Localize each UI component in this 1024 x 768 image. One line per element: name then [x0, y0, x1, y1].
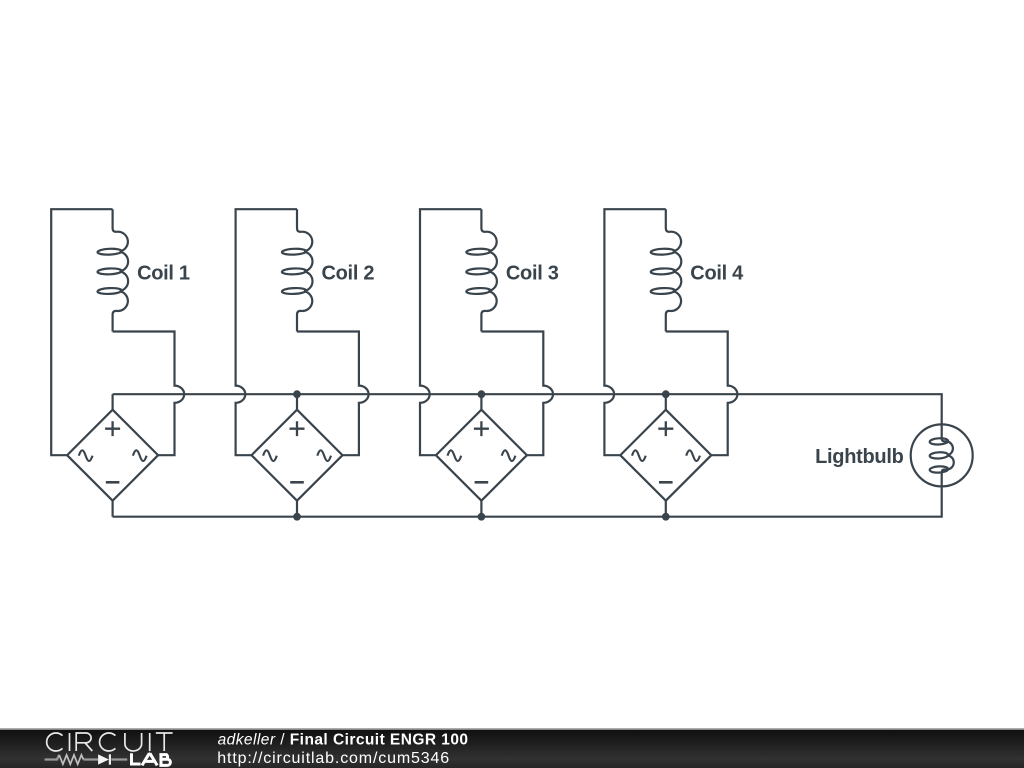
credit: circuit url — [217, 750, 450, 767]
svg-text:adkeller / Final Circuit ENGR: adkeller / Final Circuit ENGR 100 — [218, 732, 469, 749]
wire: BR1 plus output up to top bus — [111, 394, 113, 410]
wire: BR2 minus output down to bottom bus — [296, 501, 298, 517]
label: BR1 ac input squiggle left — [79, 450, 93, 461]
wire: BR4 minus output down to bottom bus — [665, 501, 667, 517]
footer bar background — [0, 728, 1024, 768]
label: BR4 plus terminal — [658, 421, 673, 436]
CircuitLab logo: LAB wordmark — [130, 753, 170, 765]
wire: node to Coil 4 top and bridge BR4 left (left side) — [604, 209, 665, 455]
wire: node to Coil 3 top and bridge BR3 left (left side) — [420, 209, 481, 455]
label: BR2 ac input squiggle right — [317, 450, 331, 461]
label: BR3 plus terminal — [474, 421, 489, 436]
CircuitLab logo: CIRCUIT wordmark — [47, 733, 173, 751]
junction: node dot BR4 plus on top bus — [662, 390, 670, 398]
label: BR2 plus terminal — [290, 421, 305, 436]
junction: node dot BR4 minus on bottom bus — [662, 513, 670, 521]
CircuitLab logo: resistor + diode glyph — [45, 754, 128, 764]
inductor Coil 3 — [466, 209, 497, 331]
svg-text:Coil 4: Coil 4 — [690, 262, 744, 284]
wire: Coil 4 bottom to bridge BR4 right, hops over top bus — [666, 332, 738, 456]
label: Coil 2 value text — [322, 262, 375, 284]
lightbulb LB1 — [911, 424, 973, 486]
svg-text:Coil 3: Coil 3 — [506, 262, 559, 284]
junction: node dot BR3 plus on top bus — [478, 390, 486, 398]
junction: node dot BR2 minus on bottom bus — [293, 513, 301, 521]
wire: BR4 plus output up to top bus — [665, 394, 667, 410]
label: Coil 3 value text — [506, 262, 559, 284]
label: BR4 minus terminal — [659, 481, 673, 484]
svg-text:Coil 1: Coil 1 — [137, 262, 190, 284]
wire: top bus (DC + rail) from BR1 to lightbulb — [113, 394, 942, 424]
svg-text:Lightbulb: Lightbulb — [815, 446, 903, 468]
label: BR3 ac input squiggle right — [502, 450, 516, 461]
wire: bottom bus (DC - rail) from BR1 to lightbulb — [113, 486, 942, 516]
bridge rectifier BR1 — [67, 410, 158, 501]
inductor Coil 4 — [651, 209, 682, 331]
label: BR3 ac input squiggle left — [448, 450, 462, 461]
wire: BR3 plus output up to top bus — [480, 394, 482, 410]
inductor Coil 2 — [282, 209, 313, 331]
label: BR2 ac input squiggle left — [263, 450, 277, 461]
inductor Coil 1 — [97, 209, 128, 331]
wire: BR2 plus output up to top bus — [296, 394, 298, 410]
label: BR1 plus terminal — [105, 421, 120, 436]
label: Lightbulb — [815, 446, 903, 468]
credit: author / title — [218, 732, 469, 749]
label: Coil 4 value text — [690, 262, 744, 284]
junction: node dot BR3 minus on bottom bus — [478, 513, 486, 521]
svg-text:http://circuitlab.com/cum5346: http://circuitlab.com/cum5346 — [217, 750, 450, 767]
label: BR4 ac input squiggle right — [686, 450, 700, 461]
wire: node to Coil 2 top and bridge BR2 left (left side) — [236, 209, 297, 455]
wire: BR3 minus output down to bottom bus — [480, 501, 482, 517]
wire: BR1 minus output down to bottom bus — [111, 501, 113, 517]
wire: node to Coil 1 top and bridge BR1 left (left side) — [51, 209, 112, 455]
bridge rectifier BR2 — [252, 410, 343, 501]
svg-text:Coil 2: Coil 2 — [322, 262, 375, 284]
wire: Coil 1 bottom to bridge BR1 right, hops over top bus — [113, 332, 185, 456]
bridge rectifier BR4 — [620, 410, 711, 501]
label: BR1 ac input squiggle right — [133, 450, 147, 461]
wire: Coil 3 bottom to bridge BR3 right, hops over top bus — [481, 332, 553, 456]
label: BR1 minus terminal — [106, 481, 120, 484]
label: BR3 minus terminal — [475, 481, 489, 484]
wire: Coil 2 bottom to bridge BR2 right, hops over top bus — [297, 332, 369, 456]
label: BR4 ac input squiggle left — [632, 450, 646, 461]
junction: node dot BR2 plus on top bus — [293, 390, 301, 398]
bridge rectifier BR3 — [436, 410, 527, 501]
label: Coil 1 value text — [137, 262, 190, 284]
label: BR2 minus terminal — [290, 481, 304, 484]
